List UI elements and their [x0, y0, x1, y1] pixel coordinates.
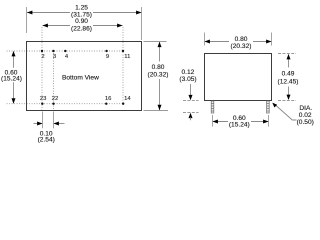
svg-text:(20.32): (20.32) — [231, 43, 252, 50]
svg-text:4: 4 — [65, 54, 69, 60]
svg-text:Bottom View: Bottom View — [62, 75, 99, 82]
svg-text:0.49: 0.49 — [282, 71, 295, 78]
svg-text:22: 22 — [52, 96, 59, 102]
svg-text:(20.32): (20.32) — [148, 72, 169, 79]
svg-text:(22.86): (22.86) — [71, 26, 92, 33]
svg-text:0.80: 0.80 — [235, 36, 248, 43]
svg-text:(15.24): (15.24) — [1, 76, 22, 83]
svg-text:0.02: 0.02 — [299, 112, 312, 119]
svg-text:23: 23 — [40, 96, 47, 102]
svg-text:(0.50): (0.50) — [297, 119, 314, 126]
svg-text:3: 3 — [53, 54, 57, 60]
svg-text:(3.05): (3.05) — [179, 76, 196, 83]
svg-text:(12.45): (12.45) — [278, 78, 299, 85]
svg-text:(15.24): (15.24) — [229, 122, 250, 129]
svg-text:16: 16 — [105, 96, 112, 102]
svg-text:(2.54): (2.54) — [38, 136, 55, 143]
svg-text:0.80: 0.80 — [152, 64, 165, 71]
svg-text:1.25: 1.25 — [75, 5, 88, 12]
svg-text:9: 9 — [106, 54, 109, 60]
svg-text:2: 2 — [41, 54, 44, 60]
svg-text:11: 11 — [124, 54, 130, 60]
svg-text:0.90: 0.90 — [75, 18, 88, 25]
svg-text:14: 14 — [124, 96, 131, 102]
